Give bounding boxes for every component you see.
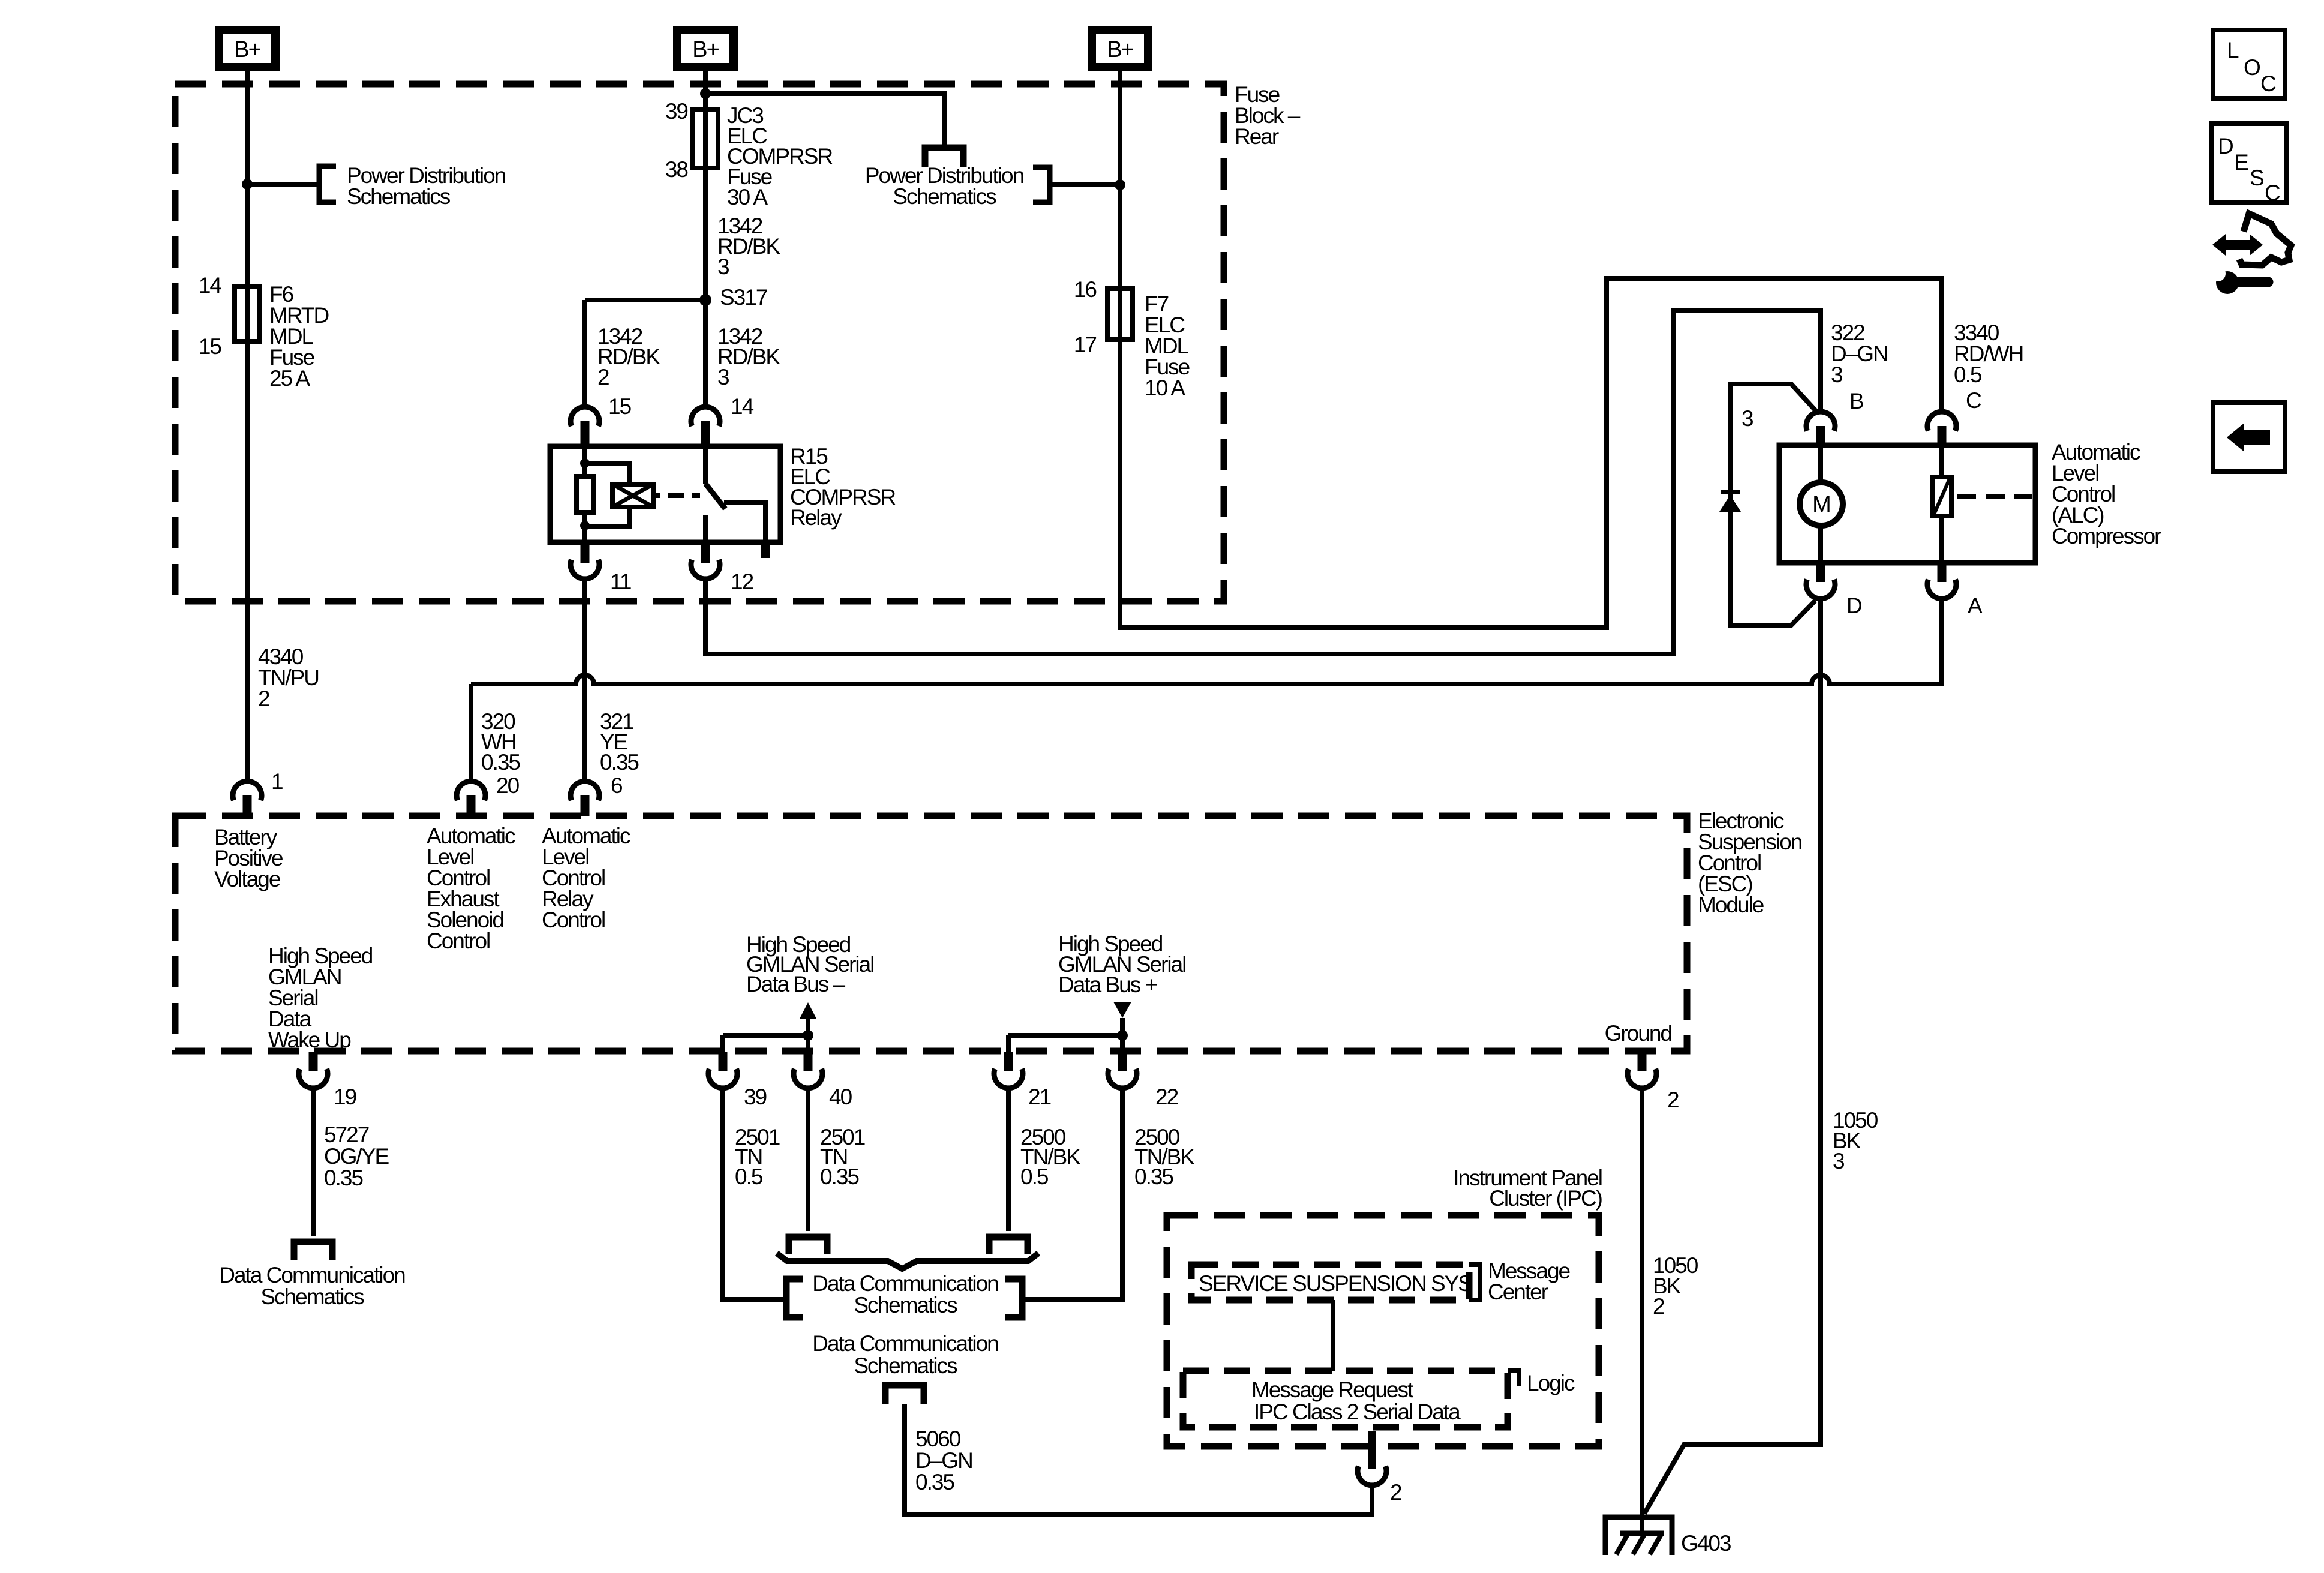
svg-text:Schematics: Schematics	[854, 1353, 957, 1378]
wire F7 to compressor pin C (ckt 3340)	[1120, 278, 1942, 628]
wire label 1342 RD/BK 3 (right)	[717, 324, 780, 389]
ESC pin 1 connector	[233, 781, 262, 816]
ESC module name label	[1698, 809, 1802, 917]
svg-text:15: 15	[199, 334, 222, 359]
data bus + jog wire	[1008, 1035, 1122, 1052]
fuse F6	[235, 287, 260, 341]
svg-text:0.35: 0.35	[481, 750, 520, 775]
svg-text:OG/YE: OG/YE	[324, 1144, 389, 1169]
relay pin 12 connector	[691, 542, 720, 579]
back arrow box	[2213, 403, 2285, 472]
ESC relay control label	[542, 824, 630, 932]
svg-text:5060: 5060	[915, 1427, 961, 1451]
ESC pin 6 label	[611, 773, 622, 798]
svg-text:C: C	[2265, 181, 2280, 205]
relay pin 11 connector	[571, 542, 599, 579]
fuse F7 pin 17 label	[1074, 332, 1097, 357]
svg-text:E: E	[2234, 150, 2248, 175]
svg-text:Logic: Logic	[1527, 1371, 1575, 1395]
fuse block - rear dashed outline	[175, 84, 1224, 601]
relay pin 12 label	[731, 569, 753, 594]
wire label 2500 TN/BK 0.35	[1134, 1125, 1195, 1189]
svg-text:Compressor: Compressor	[2052, 524, 2161, 548]
wire S317 to relay pin 14	[703, 300, 708, 407]
wire label 3340 RD/WH 0.5	[1954, 320, 2023, 387]
splice S317 label	[720, 285, 767, 310]
node junction on B+1 wire	[242, 179, 253, 190]
power distribution reference bracket (right)	[1033, 167, 1050, 202]
svg-text:17: 17	[1074, 332, 1097, 357]
data bus - junction	[803, 1030, 813, 1041]
svg-text:Wake Up: Wake Up	[268, 1028, 351, 1052]
fuse F6 name label	[269, 282, 328, 391]
ESC pin 22 label	[1155, 1085, 1178, 1109]
fuse F6 pin 15 label	[199, 334, 222, 359]
svg-text:A: A	[1968, 593, 1983, 618]
relay switch fixed contact	[703, 446, 708, 484]
svg-text:22: 22	[1155, 1085, 1178, 1109]
relay actuation dashed link	[653, 493, 700, 498]
svg-text:21: 21	[1028, 1085, 1051, 1109]
fuse F7	[1107, 289, 1133, 340]
svg-text:10 A: 10 A	[1145, 376, 1185, 400]
relay coil loop	[585, 463, 629, 526]
wire relay 11 to ESC pin 6 (ckt 321)	[582, 579, 587, 781]
svg-text:Center: Center	[1488, 1280, 1548, 1304]
ESC high speed gmlan wake up label	[268, 944, 373, 1052]
goes-to symbol pin 40	[789, 1237, 827, 1254]
svg-text:Data Communication: Data Communication	[812, 1271, 998, 1296]
svg-text:Cluster (IPC): Cluster (IPC)	[1489, 1186, 1602, 1211]
data bus - jog wire	[723, 1035, 808, 1052]
wire message center to logic	[1331, 1300, 1335, 1371]
wire label 1050 BK 2	[1653, 1253, 1698, 1319]
wire JC3 to S317 (ckt 1342)	[703, 168, 708, 300]
fuse JC3 name label	[727, 103, 832, 209]
wire compressor D to ground (ckt 1050)	[1644, 599, 1821, 1514]
svg-text:Message Request: Message Request	[1251, 1377, 1414, 1402]
svg-text:15: 15	[608, 394, 632, 419]
wire label 1342 RD/BK 3 (above S317)	[717, 214, 780, 279]
fuse block - rear label	[1235, 82, 1301, 149]
ESC battery positive voltage label	[214, 825, 283, 891]
svg-text:3: 3	[717, 254, 729, 279]
diode wire gauge label 3	[1742, 406, 1753, 431]
ESC pin 40 connector	[794, 1052, 822, 1088]
logic label	[1527, 1371, 1575, 1395]
wire ESC 40 (ckt 2501)	[806, 1088, 810, 1231]
svg-text:14: 14	[199, 273, 222, 298]
svg-text:C: C	[2260, 71, 2276, 96]
svg-text:25 A: 25 A	[269, 366, 310, 391]
svg-text:M: M	[1812, 492, 1830, 517]
fuse JC3 pin 38 label	[665, 157, 688, 182]
relay pin 15 connector	[571, 407, 599, 446]
wire S317 branch left	[585, 298, 705, 302]
compressor motor M	[1800, 482, 1843, 526]
svg-text:30 A: 30 A	[727, 185, 768, 209]
power distribution schematics label (left)	[347, 163, 506, 209]
logic dashed box	[1183, 1371, 1508, 1427]
wire ESC 22 (ckt 2500)	[1025, 1088, 1122, 1299]
svg-text:0.35: 0.35	[324, 1166, 363, 1190]
wire B+1 to F6	[245, 67, 250, 287]
svg-text:B: B	[1849, 389, 1863, 413]
wire label 2501 TN 0.35	[820, 1125, 865, 1189]
svg-text:2: 2	[1667, 1088, 1679, 1112]
wire B+2 to JC3	[703, 67, 708, 110]
solenoid dashed actuation line	[1957, 494, 2032, 499]
fuse JC3 pin 39 label	[665, 99, 688, 124]
wire label 2500 TN/BK 0.5	[1020, 1125, 1081, 1189]
service suspension sys text	[1199, 1271, 1472, 1296]
ESC pin 6 connector	[571, 781, 599, 816]
svg-text:Data Bus +: Data Bus +	[1058, 972, 1157, 997]
battery feed B+ terminal 2	[677, 30, 734, 67]
svg-text:3: 3	[1833, 1149, 1844, 1173]
svg-text:O: O	[2244, 55, 2260, 80]
svg-text:Control: Control	[427, 929, 490, 953]
svg-text:20: 20	[496, 773, 520, 798]
data bus + junction	[1117, 1030, 1128, 1041]
splice S317	[699, 294, 711, 306]
ESC ground label	[1605, 1021, 1672, 1046]
relay winding box with X	[612, 484, 653, 507]
svg-text:Schematics: Schematics	[854, 1293, 957, 1317]
ESC pin 19 label	[334, 1085, 356, 1109]
ESC pin 21 connector	[994, 1052, 1023, 1088]
svg-text:B+: B+	[234, 37, 260, 62]
direction arrow and wrench icon	[2210, 214, 2291, 294]
relay switch throw wire	[724, 503, 765, 542]
wire ESC 19 (ckt 5727)	[311, 1088, 316, 1236]
svg-text:1: 1	[271, 769, 283, 794]
wire ESC 20 to compressor pin A (ckt 320) with hops	[471, 599, 1942, 684]
svg-text:40: 40	[829, 1085, 852, 1109]
ESC pin 1 label	[271, 769, 283, 794]
svg-text:38: 38	[665, 157, 688, 182]
compressor pin C connector	[1927, 412, 1956, 445]
logic corner bracket	[1508, 1371, 1519, 1386]
svg-text:C: C	[1966, 388, 1981, 413]
svg-text:11: 11	[610, 569, 631, 594]
message request text	[1251, 1377, 1414, 1402]
left bracket data comm	[786, 1279, 803, 1317]
svg-text:3: 3	[1742, 406, 1753, 431]
data communication schematics label 2	[812, 1331, 998, 1378]
fuse F7 pin 16 label	[1074, 277, 1097, 302]
battery feed B+ terminal 3	[1092, 30, 1148, 67]
relay pin 14 label	[731, 394, 754, 419]
ESC ground pin 2 connector	[1628, 1052, 1656, 1088]
svg-text:0.35: 0.35	[915, 1470, 954, 1494]
instrument panel cluster label	[1453, 1166, 1602, 1211]
wire ESC 39 (ckt 2501)	[723, 1088, 786, 1299]
svg-text:SERVICE SUSPENSION SYS: SERVICE SUSPENSION SYS	[1199, 1271, 1472, 1296]
svg-text:D–GN: D–GN	[915, 1448, 972, 1473]
svg-text:S: S	[2250, 166, 2263, 190]
ESC pin 20 label	[496, 773, 520, 798]
ESC pin 21 label	[1028, 1085, 1051, 1109]
svg-text:2: 2	[597, 365, 609, 389]
compressor pin D label	[1846, 593, 1861, 618]
wire junction to power distribution bracket (right)	[1050, 182, 1120, 187]
ALC compressor box	[1779, 445, 2035, 563]
wire relay 12 to compressor pin B (ckt 322)	[705, 311, 1821, 654]
svg-text:0.35: 0.35	[1134, 1164, 1173, 1189]
relay switch lower contact	[703, 515, 708, 542]
node junction on B+3 wire	[1115, 179, 1125, 190]
wire F6 to ESC pin 1 (ckt 4340)	[245, 341, 250, 781]
ESC pin 19 connector	[299, 1052, 328, 1088]
wire ESC 21 (ckt 2500)	[1006, 1088, 1011, 1231]
wire label 321 YE 0.35	[600, 709, 639, 775]
svg-text:2: 2	[1390, 1480, 1401, 1505]
wire label 5060 D-GN 0.35	[915, 1427, 972, 1494]
wire junction to power distribution symbol	[705, 94, 944, 145]
svg-text:L: L	[2227, 38, 2239, 62]
ground G403 symbol	[1605, 1517, 1672, 1555]
battery feed B+ terminal 1	[219, 30, 275, 67]
svg-text:39: 39	[744, 1085, 767, 1109]
wire label 322 D-GN 3	[1831, 320, 1888, 387]
IPC dashed outline	[1167, 1215, 1599, 1446]
relay unused terminal stub	[761, 542, 770, 558]
wire label 4340 TN/PU 2	[258, 644, 319, 711]
compressor solenoid wires	[1939, 445, 1944, 563]
ESC exhaust solenoid control label	[427, 824, 515, 953]
message center dashed box	[1191, 1265, 1469, 1300]
relay coil wire lower	[582, 512, 587, 542]
power distribution reference bracket (left)	[319, 166, 336, 202]
diode branch wire	[1730, 384, 1818, 625]
svg-text:Relay: Relay	[790, 505, 842, 530]
relay coil resistor	[577, 476, 593, 512]
relay switch blade	[705, 484, 725, 509]
high speed gmlan serial data bus + label	[1058, 932, 1185, 997]
svg-text:5727: 5727	[324, 1122, 369, 1147]
goes-to symbol class2	[885, 1385, 924, 1404]
svg-text:3: 3	[717, 365, 729, 389]
goes-to symbol pin 21	[989, 1237, 1028, 1254]
svg-text:B+: B+	[692, 37, 719, 62]
message center bracket	[1469, 1265, 1480, 1300]
wire label 1342 RD/BK 2	[597, 324, 660, 389]
svg-text:Schematics: Schematics	[260, 1284, 364, 1309]
svg-text:0.35: 0.35	[820, 1164, 859, 1189]
compressor pin A label	[1968, 593, 1983, 618]
svg-text:D: D	[2218, 134, 2233, 158]
LOC reference box	[2213, 30, 2285, 98]
relay coil junction lower	[580, 521, 590, 530]
svg-text:S317: S317	[720, 285, 767, 310]
svg-text:0.5: 0.5	[735, 1164, 763, 1189]
svg-text:2: 2	[1653, 1294, 1664, 1319]
svg-text:Data Communication: Data Communication	[812, 1331, 998, 1356]
brace joining pins 40 and 21	[777, 1253, 1038, 1269]
diode D (cathode bar and triangle)	[1719, 490, 1741, 512]
svg-text:19: 19	[334, 1085, 356, 1109]
wire label 320 WH 0.35	[481, 709, 520, 775]
wire label 5727 OG/YE 0.35	[324, 1122, 389, 1190]
ESC pin 22 connector	[1108, 1052, 1137, 1088]
compressor pin B label	[1849, 389, 1863, 413]
power distribution schematics label (center)	[865, 163, 1024, 209]
wire label 1050 BK 3	[1833, 1108, 1878, 1173]
ESC pin 39 connector	[708, 1052, 737, 1088]
ESC ground pin 2 label	[1667, 1088, 1679, 1112]
data bus - arrow	[800, 1002, 816, 1035]
wire junction to power distribution bracket	[247, 182, 319, 187]
compressor pin B connector	[1806, 412, 1835, 445]
data communication schematics label (pin 19)	[219, 1263, 405, 1309]
relay pin 15 label	[608, 394, 632, 419]
svg-text:Schematics: Schematics	[893, 184, 996, 209]
relay R15 name label	[790, 444, 895, 530]
relay pin 11 label	[610, 569, 631, 594]
data communication schematics label (bus)	[812, 1271, 998, 1317]
ground G403 label	[1681, 1531, 1731, 1556]
fuse F7 name label	[1145, 292, 1190, 400]
fuse F6 pin 14 label	[199, 273, 222, 298]
fuse JC3	[693, 110, 718, 168]
high speed gmlan serial data bus - label	[746, 932, 873, 996]
relay coil wire upper	[582, 446, 587, 476]
wire label 2501 TN 0.5	[735, 1125, 780, 1189]
right bracket data comm	[1005, 1279, 1022, 1317]
goes-to symbol for power distribution (center)	[925, 148, 963, 167]
relay R15 box	[550, 446, 780, 542]
node junction on B+2 wire	[700, 88, 711, 99]
svg-text:Ground: Ground	[1605, 1021, 1672, 1046]
svg-text:Rear: Rear	[1235, 124, 1279, 149]
ESC module dashed outline	[175, 816, 1687, 1051]
IPC pin 2 connector	[1358, 1431, 1386, 1485]
message center label	[1488, 1259, 1570, 1304]
wire class2 to IPC pin 2 (ckt 5060)	[905, 1404, 1372, 1515]
IPC pin 2 label	[1390, 1480, 1401, 1505]
wire ESC ground to G403 (ckt 1050)	[1640, 1088, 1644, 1517]
relay coil junction upper	[580, 458, 590, 468]
svg-text:0.5: 0.5	[1020, 1164, 1049, 1189]
svg-text:6: 6	[611, 773, 622, 798]
svg-text:Schematics: Schematics	[347, 184, 451, 209]
data bus + arrow	[1113, 1002, 1131, 1035]
svg-text:Voltage: Voltage	[214, 867, 280, 891]
svg-text:G403: G403	[1681, 1531, 1731, 1556]
svg-text:2: 2	[258, 686, 269, 711]
compressor pin D connector	[1806, 563, 1835, 599]
svg-text:B+: B+	[1107, 37, 1133, 62]
goes-to symbol pin 19	[294, 1242, 332, 1260]
svg-text:16: 16	[1074, 277, 1097, 302]
ESC pin 39 label	[744, 1085, 767, 1109]
wire S317 to relay pin 15	[582, 300, 587, 407]
svg-text:39: 39	[665, 99, 688, 124]
svg-text:12: 12	[731, 569, 753, 594]
svg-text:Control: Control	[542, 908, 605, 932]
svg-text:0.35: 0.35	[600, 750, 639, 775]
svg-text:Module: Module	[1698, 893, 1764, 917]
compressor motor wires	[1818, 445, 1823, 563]
compressor pin A connector	[1927, 563, 1956, 599]
svg-text:Data Communication: Data Communication	[219, 1263, 405, 1287]
compressor exhaust solenoid	[1932, 477, 1951, 516]
ipc class 2 serial data text	[1254, 1400, 1461, 1424]
svg-text:D: D	[1846, 593, 1861, 618]
svg-text:14: 14	[731, 394, 754, 419]
svg-text:Data Bus –: Data Bus –	[746, 972, 845, 996]
svg-text:3: 3	[1831, 362, 1842, 387]
svg-text:0.5: 0.5	[1954, 362, 1982, 387]
svg-text:IPC Class 2 Serial Data: IPC Class 2 Serial Data	[1254, 1400, 1461, 1424]
ALC compressor name label	[2052, 440, 2161, 548]
relay pin 14 connector	[691, 407, 720, 446]
wire ESC 20 riser	[469, 684, 473, 781]
wire B+3 to F7	[1118, 67, 1122, 289]
DESC reference box	[2212, 124, 2286, 205]
ESC pin 40 label	[829, 1085, 852, 1109]
compressor pin C label	[1966, 388, 1981, 413]
ESC pin 20 connector	[457, 781, 485, 816]
